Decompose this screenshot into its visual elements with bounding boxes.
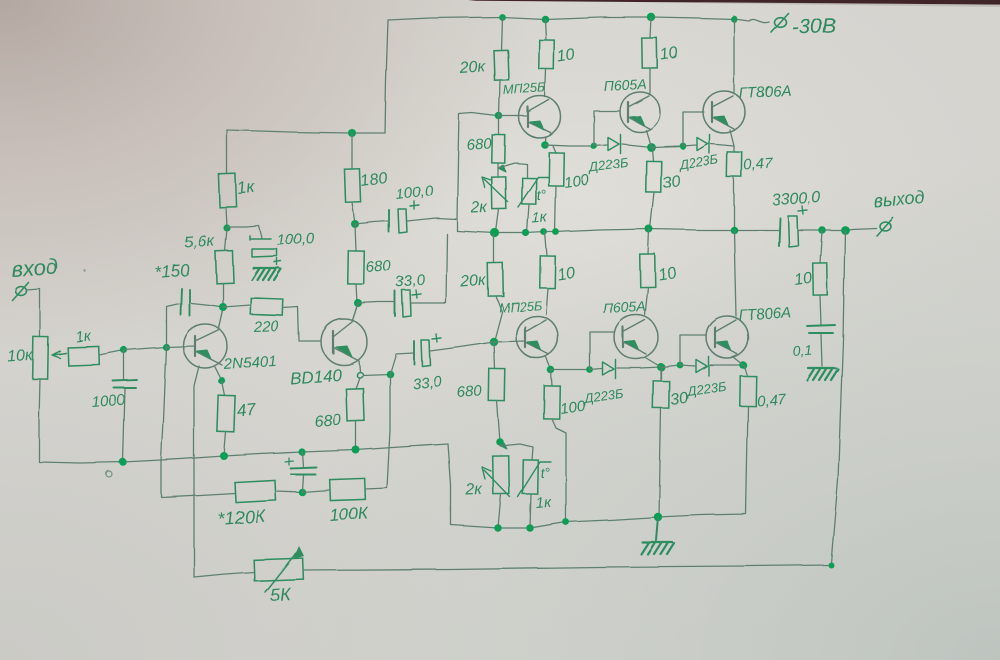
node output a xyxy=(818,226,826,234)
resistor 100 upper xyxy=(549,153,565,186)
resistor 10 output xyxy=(813,263,828,295)
node base of 2N5401 xyxy=(162,343,169,350)
wire 10a top lead xyxy=(545,19,546,40)
wire 33.0 lower right lead xyxy=(430,342,494,351)
wire GT806A upper base hook xyxy=(683,112,704,146)
wire 100 lower bottom lead xyxy=(552,419,566,522)
svg-text:1к: 1к xyxy=(531,209,548,227)
node BD140 emitter junction xyxy=(386,370,394,378)
wire input to pot xyxy=(26,289,40,337)
node GT806A upper base tap xyxy=(680,143,687,150)
wire bottom rail right xyxy=(303,565,831,570)
wire 100 upper top lead xyxy=(553,146,556,153)
wire 5.6k bottom lead xyxy=(222,283,224,307)
svg-text:1к: 1к xyxy=(75,327,93,346)
node P605A lower emitter xyxy=(657,363,665,371)
capacitor 100.0 coupling left plate xyxy=(388,210,390,232)
capacitor 3300.0 left plate xyxy=(779,218,780,246)
svg-text:100: 100 xyxy=(559,398,587,418)
node bus 10L top xyxy=(541,229,548,236)
wire 2N5401 bottom to 5k line xyxy=(194,366,199,577)
node MP25B upper emitter xyxy=(541,141,549,149)
wire mid ground bus xyxy=(39,379,448,463)
wire 20k upper bottom lead xyxy=(499,80,500,116)
wire 150 cap right lead xyxy=(191,303,223,307)
wire GT806A upper collector xyxy=(733,19,735,92)
wire output bus xyxy=(457,229,779,233)
wire 680L bottom lead xyxy=(356,284,357,303)
svg-text:t°: t° xyxy=(536,186,547,203)
node rail junction x502 xyxy=(499,14,506,21)
resistor 680 VAS upper xyxy=(348,251,365,284)
svg-text:220: 220 xyxy=(253,318,280,336)
arrow GT806A upper emitter xyxy=(714,116,728,125)
resistor 100K body xyxy=(330,478,366,500)
wire 0.47 lower bottom lead xyxy=(746,406,748,514)
wire 47 bottom lead xyxy=(224,432,226,456)
transistor P605A lower body xyxy=(614,315,658,359)
wire wiper bridge lower xyxy=(500,444,533,460)
wire 1k therm lower bottom lead xyxy=(530,494,531,528)
thermistor 1k upper diagonal xyxy=(518,177,548,207)
svg-text:5,6к: 5,6к xyxy=(184,233,216,252)
wire MP25B lower base lead xyxy=(494,341,525,342)
wire P605A lower emitter lead xyxy=(646,358,661,367)
node bottom rail end xyxy=(828,562,834,568)
wire mid bus drop xyxy=(448,444,451,525)
svg-text:10: 10 xyxy=(657,265,677,284)
wire 10a bottom lead xyxy=(545,69,546,97)
capacitor 100.0 coupling right plate xyxy=(398,209,407,233)
resistor 10 lower b xyxy=(640,254,656,287)
diode D223B lower left xyxy=(603,360,616,379)
transistor 2N5401 body xyxy=(183,324,227,368)
plus sign feedback cap xyxy=(285,458,293,465)
wire 680L top lead xyxy=(355,224,356,251)
transistor MP25B lower collector diagonal xyxy=(525,320,546,332)
capacitor 0.1 plates xyxy=(807,325,835,333)
wire 1k to 1000cap node xyxy=(99,350,124,355)
node P605A upper emitter xyxy=(647,143,656,152)
trimmer 2k upper body xyxy=(492,177,507,209)
capacitor 100.0 bias bottom plate xyxy=(252,249,277,257)
node feedback junction xyxy=(298,488,306,496)
node 5.6k bottom / 220 xyxy=(219,303,227,311)
svg-text:1к: 1к xyxy=(236,177,256,198)
wire emitter bus lower seg1 xyxy=(551,369,590,371)
wire 100 lower top lead xyxy=(551,371,552,386)
svg-text:680: 680 xyxy=(365,257,392,276)
wire upper base node to bus hook xyxy=(457,113,497,219)
thermistor 1k upper body xyxy=(522,178,536,204)
wire 47 top lead xyxy=(222,381,225,396)
wire 150 cap left lead xyxy=(166,303,179,347)
node P605A upper base tap xyxy=(591,143,598,150)
wire 33.0 lower left lead xyxy=(390,353,413,374)
wire 0.47 upper top lead xyxy=(733,146,735,152)
capacitor 33.0 upper right plate xyxy=(402,290,411,317)
node 1000cap bus xyxy=(119,458,127,466)
wire hook joins bus xyxy=(456,219,458,231)
node rail junction x545 xyxy=(541,15,549,23)
svg-text:выход: выход xyxy=(873,187,926,211)
resistor 20k upper xyxy=(493,50,508,80)
resistor 220 body xyxy=(251,298,284,315)
resistor 10 lower a xyxy=(540,256,556,288)
svg-text:2к: 2к xyxy=(465,481,484,499)
resistor 0.47 upper xyxy=(727,152,742,177)
transistor GT806A upper collector diagonal xyxy=(712,96,733,107)
wire 10b top lead xyxy=(650,17,651,38)
wire 10Lb top lead xyxy=(648,229,649,254)
node rail junction x651 xyxy=(647,13,655,21)
wire 30 lower top lead xyxy=(660,368,662,381)
svg-text:100,0: 100,0 xyxy=(276,230,315,249)
node bus GT806A lower collector xyxy=(730,226,738,234)
resistor 30 lower xyxy=(653,381,669,408)
wire 220 to BD140 base xyxy=(283,307,321,341)
node rail junction x734 xyxy=(731,16,738,23)
wire mid ground stub xyxy=(656,517,658,540)
arrow potentiometer 5K xyxy=(265,553,296,592)
plus sign 100.0 coupling xyxy=(410,201,419,209)
node output b xyxy=(841,226,850,235)
svg-text:BD140: BD140 xyxy=(289,365,343,388)
node lower driver base xyxy=(490,338,498,346)
node bus 100u bottom xyxy=(553,229,560,236)
wire 680 upper top lead xyxy=(498,116,500,135)
arrow wiper junction upper xyxy=(498,165,506,172)
wire 0.47 upper bottom lead xyxy=(733,177,735,230)
arrow head potentiometer 5K xyxy=(293,546,304,559)
wire P605A lower base hook xyxy=(590,332,614,370)
resistor 680 lower bias xyxy=(489,369,506,401)
resistor 10 upper a xyxy=(539,40,555,69)
wire feedback from output xyxy=(831,230,845,563)
svg-text:30: 30 xyxy=(669,390,689,409)
resistor 30 upper xyxy=(646,161,662,192)
node GT806A lower base tap xyxy=(677,362,684,369)
wire 1k to 5.6k junction xyxy=(226,207,227,227)
resistor 1k input body xyxy=(68,346,100,365)
transistor BD140 body xyxy=(321,319,367,365)
wire feedback left vertical xyxy=(161,347,235,497)
wire 680 lower to 2k xyxy=(497,401,500,442)
wire emitter bus lower seg3 xyxy=(617,367,661,368)
wire GT806A lower emitter lead xyxy=(733,357,743,365)
wire P605A upper emitter lead xyxy=(646,130,651,147)
transistor P605A lower emitter diagonal xyxy=(623,342,646,354)
svg-text:МП25Б: МП25Б xyxy=(498,298,542,315)
capacitor 100.0 bias top plate xyxy=(250,236,271,240)
transistor P605A upper base bar xyxy=(627,102,629,122)
resistor 5.6k xyxy=(215,251,233,284)
potentiometer 10k body xyxy=(33,337,49,379)
wire fb node to 100K xyxy=(302,490,330,492)
plus sign 33.0 upper xyxy=(412,290,421,298)
svg-text:680: 680 xyxy=(314,412,342,431)
dot stray ink mark xyxy=(83,269,85,271)
svg-text:t°: t° xyxy=(540,464,551,481)
svg-text:ГТ806А: ГТ806А xyxy=(738,304,791,324)
svg-text:10: 10 xyxy=(659,45,679,64)
wire emitter bus upper seg6 xyxy=(711,144,734,146)
wire 680 BD bottom lead xyxy=(355,421,357,450)
transistor GT806A lower emitter diagonal xyxy=(715,342,737,354)
svg-text:33,0: 33,0 xyxy=(412,373,443,393)
wire 20k lower bottom lead xyxy=(494,296,502,342)
diode D223B lower right xyxy=(696,357,709,376)
transistor MP25B lower base bar xyxy=(524,327,526,347)
wire 100K up to BD emitter xyxy=(365,374,390,489)
svg-text:5К: 5К xyxy=(269,584,292,605)
wire emitter bus lower seg4 xyxy=(661,365,680,367)
node 180/680/cap junction xyxy=(351,220,359,228)
transistor GT806A lower collector diagonal xyxy=(715,320,736,332)
svg-text:вход: вход xyxy=(11,254,59,282)
arrow 10k wiper xyxy=(52,351,66,358)
wire lower ground bus xyxy=(451,514,746,528)
node bus 30u bottom xyxy=(645,225,653,233)
wire 680 BD top lead xyxy=(356,378,360,389)
svg-text:20к: 20к xyxy=(459,272,488,291)
wire fb cap bottom lead xyxy=(302,475,303,491)
capacitor 33.0 lower right plate xyxy=(421,340,430,366)
wire 220 left lead xyxy=(223,305,251,307)
wire MP25B lower emitter lead xyxy=(546,357,551,370)
node 2k lower bus xyxy=(494,524,502,532)
transistor MP25B lower emitter diagonal xyxy=(525,342,548,354)
svg-text:0,47: 0,47 xyxy=(743,155,774,174)
arrow P605A lower emitter xyxy=(625,341,639,350)
svg-text:680: 680 xyxy=(466,135,493,154)
ground zobel xyxy=(807,368,838,380)
node lower wiper junction xyxy=(496,438,504,446)
svg-text:33,0: 33,0 xyxy=(395,271,426,291)
node mid ground xyxy=(654,513,662,521)
wire emitter bus lower seg6 xyxy=(710,364,743,366)
wire BD140 emitter lead xyxy=(359,361,360,371)
wire 30 lower bottom lead xyxy=(659,408,661,517)
wire 10Lb bottom lead xyxy=(645,287,648,315)
arrow wiper junction lower xyxy=(500,443,507,449)
wire 2N5401 emitter to 47 xyxy=(215,367,222,381)
svg-text:20к: 20к xyxy=(458,58,487,77)
node fbcap bus xyxy=(298,448,305,455)
wire 680 to 2k upper xyxy=(497,163,499,177)
svg-text:П605А: П605А xyxy=(602,298,646,316)
svg-text:3300,0: 3300,0 xyxy=(771,189,821,209)
transistor P605A upper emitter diagonal xyxy=(628,117,650,129)
transistor 2N5401 collector diagonal xyxy=(195,308,223,341)
wire 10La top lead xyxy=(545,232,547,256)
potentiometer 5K body xyxy=(254,558,304,581)
wire 2k lower bottom lead xyxy=(498,494,501,528)
transistor MP25B upper body xyxy=(519,96,561,138)
svg-text:10к: 10к xyxy=(7,347,35,366)
resistor 1k top-left xyxy=(218,174,236,208)
capacitor feedback plates xyxy=(290,467,316,474)
arrow P605A upper emitter xyxy=(630,116,644,125)
wire emitter bus upper seg5 xyxy=(683,145,696,146)
svg-text:100К: 100К xyxy=(329,503,370,525)
wire wiper bridge upper xyxy=(498,163,527,178)
capacitor 33.0 upper left plate xyxy=(394,291,396,316)
node MP25B lower emitter xyxy=(547,366,555,374)
transistor GT806A upper emitter diagonal xyxy=(712,117,734,129)
ground mid xyxy=(641,542,674,554)
wire emitter bus upper seg4 xyxy=(651,146,683,147)
wire node to 100.0 cap xyxy=(355,221,389,224)
resistor 120K body xyxy=(235,480,276,502)
wire 33.0 upper right lead xyxy=(411,234,447,303)
wire 5.6k top lead xyxy=(225,228,227,251)
wire 0.1 cap to ground xyxy=(821,334,822,366)
terminal -30V supply xyxy=(771,13,788,32)
mark small circle on paper xyxy=(106,471,112,477)
wire 10La bottom lead xyxy=(546,288,548,315)
svg-text:*150: *150 xyxy=(154,261,191,282)
node upper driver base xyxy=(495,112,503,120)
transistor GT806A lower base bar xyxy=(714,327,716,347)
svg-text:0,1: 0,1 xyxy=(792,342,813,359)
transistor P605A upper body xyxy=(620,92,660,132)
arrow trimmer 2k upper xyxy=(482,177,508,202)
resistor 180 xyxy=(344,169,360,203)
wire 1000 cap bottom lead xyxy=(123,389,125,462)
wire 1k R top lead xyxy=(226,130,228,174)
arrow 2N5401 emitter xyxy=(197,350,211,359)
node 5.6k top junction xyxy=(223,224,230,231)
transistor BD140 emitter diagonal xyxy=(333,347,359,361)
wire BD140 emitter to 33cap node xyxy=(363,374,390,375)
arrow MP25B lower emitter xyxy=(527,341,541,350)
resistor 47 xyxy=(217,396,235,433)
transistor MP25B upper emitter diagonal xyxy=(528,122,551,133)
terminal input xyxy=(13,283,29,301)
wire 1000 cap top lead xyxy=(123,350,125,380)
wire emitter bus lower seg2 xyxy=(590,369,602,370)
terminal output xyxy=(877,218,893,236)
dark table edge top right xyxy=(468,0,1000,5)
node 100 lower bus xyxy=(563,519,570,526)
capacitor 3300.0 right plate xyxy=(788,216,798,247)
node emitter junction 2N5401 xyxy=(218,377,225,384)
transistor P605A upper collector diagonal xyxy=(628,96,649,107)
resistor 680 upper bias xyxy=(492,135,505,163)
capacitor 33.0 lower left plate xyxy=(413,341,415,364)
node 180 top xyxy=(348,129,356,137)
node bus 2k bottom xyxy=(490,228,499,237)
transistor MP25B lower body xyxy=(516,316,558,358)
wire bus cap to output xyxy=(798,228,876,230)
resistor 20k lower xyxy=(488,263,504,296)
capacitor 1000 plates xyxy=(113,380,137,388)
thermistor 1k lower body xyxy=(523,460,539,494)
wire bottom rail left xyxy=(194,572,254,577)
transistor 2N5401 base bar xyxy=(194,336,196,356)
svg-text:0,47: 0,47 xyxy=(756,391,787,410)
wire 30 upper top lead xyxy=(652,148,653,161)
svg-text:МП25Б: МП25Б xyxy=(502,80,546,97)
svg-text:2к: 2к xyxy=(470,199,489,217)
wire GT806A lower collector xyxy=(734,230,736,316)
transistor GT806A upper body xyxy=(703,91,745,133)
wire 180 bottom lead xyxy=(352,202,355,224)
wire MP25B upper base lead xyxy=(499,115,528,117)
wire emitter bus upper seg2 xyxy=(594,145,607,146)
svg-text:1к: 1к xyxy=(535,494,552,512)
resistor 680 BD140 xyxy=(346,389,364,422)
wire 30 upper bottom lead xyxy=(650,192,654,229)
svg-text:100: 100 xyxy=(563,172,591,192)
transistor 2N5401 emitter diagonal xyxy=(195,351,222,365)
resistor 0.47 lower xyxy=(740,376,757,406)
plus sign bias cap xyxy=(274,258,281,265)
resistor 10 upper b xyxy=(642,38,658,68)
transistor GT806A lower body xyxy=(706,316,748,358)
arrow BD140 emitter xyxy=(336,346,352,357)
transistor P605A lower base bar xyxy=(622,327,624,347)
wire 20k upper top lead xyxy=(501,17,502,50)
wire 100 upper bottom lead xyxy=(555,186,556,232)
transistor MP25B upper collector diagonal xyxy=(528,100,549,112)
thermistor 1k lower diagonal xyxy=(518,462,551,497)
wire rail left drop to VAS collector xyxy=(385,20,388,133)
transistor GT806A upper base bar xyxy=(711,102,713,122)
transistor MP25B upper base bar xyxy=(527,107,529,127)
wire 20k lower top lead xyxy=(493,234,495,263)
wire 1k therm upper bottom lead xyxy=(527,204,529,233)
svg-text:ГТ806А: ГТ806А xyxy=(738,82,791,102)
transistor P605A lower collector diagonal xyxy=(623,320,645,332)
wire 2N5401 base lead xyxy=(166,346,195,347)
diode D223B upper right xyxy=(697,135,710,154)
ground bias cap xyxy=(252,268,281,280)
node 47 bus xyxy=(220,452,228,460)
svg-text:10: 10 xyxy=(556,47,576,66)
diode D223B upper left xyxy=(608,135,621,154)
wire bias node to filter cap xyxy=(227,226,262,238)
node GT806A lower emitter xyxy=(739,361,747,369)
node 1k therm lower bus xyxy=(526,524,534,532)
wire 180 top lead xyxy=(351,133,353,169)
transistor BD140 base bar xyxy=(332,331,334,353)
node P605A lower base tap xyxy=(587,367,594,374)
wire 2k upper bottom lead xyxy=(496,209,499,232)
svg-text:-30В: -30В xyxy=(791,14,836,39)
wire emitter bus upper seg3 xyxy=(622,144,651,147)
svg-text:680: 680 xyxy=(456,382,483,401)
arrow trimmer 2k lower xyxy=(482,467,510,497)
wire MP25B upper emitter lead xyxy=(545,137,546,145)
svg-text:1000: 1000 xyxy=(91,392,126,411)
plus sign 33.0 lower xyxy=(432,334,441,342)
svg-text:*120К: *120К xyxy=(217,506,267,529)
wire fb cap top lead xyxy=(302,452,303,467)
node 680BD bus xyxy=(352,446,360,454)
wire 33.0 upper left lead xyxy=(358,302,395,303)
svg-text:10: 10 xyxy=(556,265,576,284)
resistor 100 lower xyxy=(544,386,561,419)
wire top supply rail xyxy=(388,17,769,23)
node BD140 emitter small circle xyxy=(357,372,363,378)
svg-text:47: 47 xyxy=(236,400,257,421)
capacitor 150 plates xyxy=(180,288,189,315)
plus sign 3300 cap xyxy=(798,206,807,214)
wire 10 out to 0.1 cap xyxy=(820,295,821,325)
arrow MP25B upper emitter xyxy=(530,121,544,130)
